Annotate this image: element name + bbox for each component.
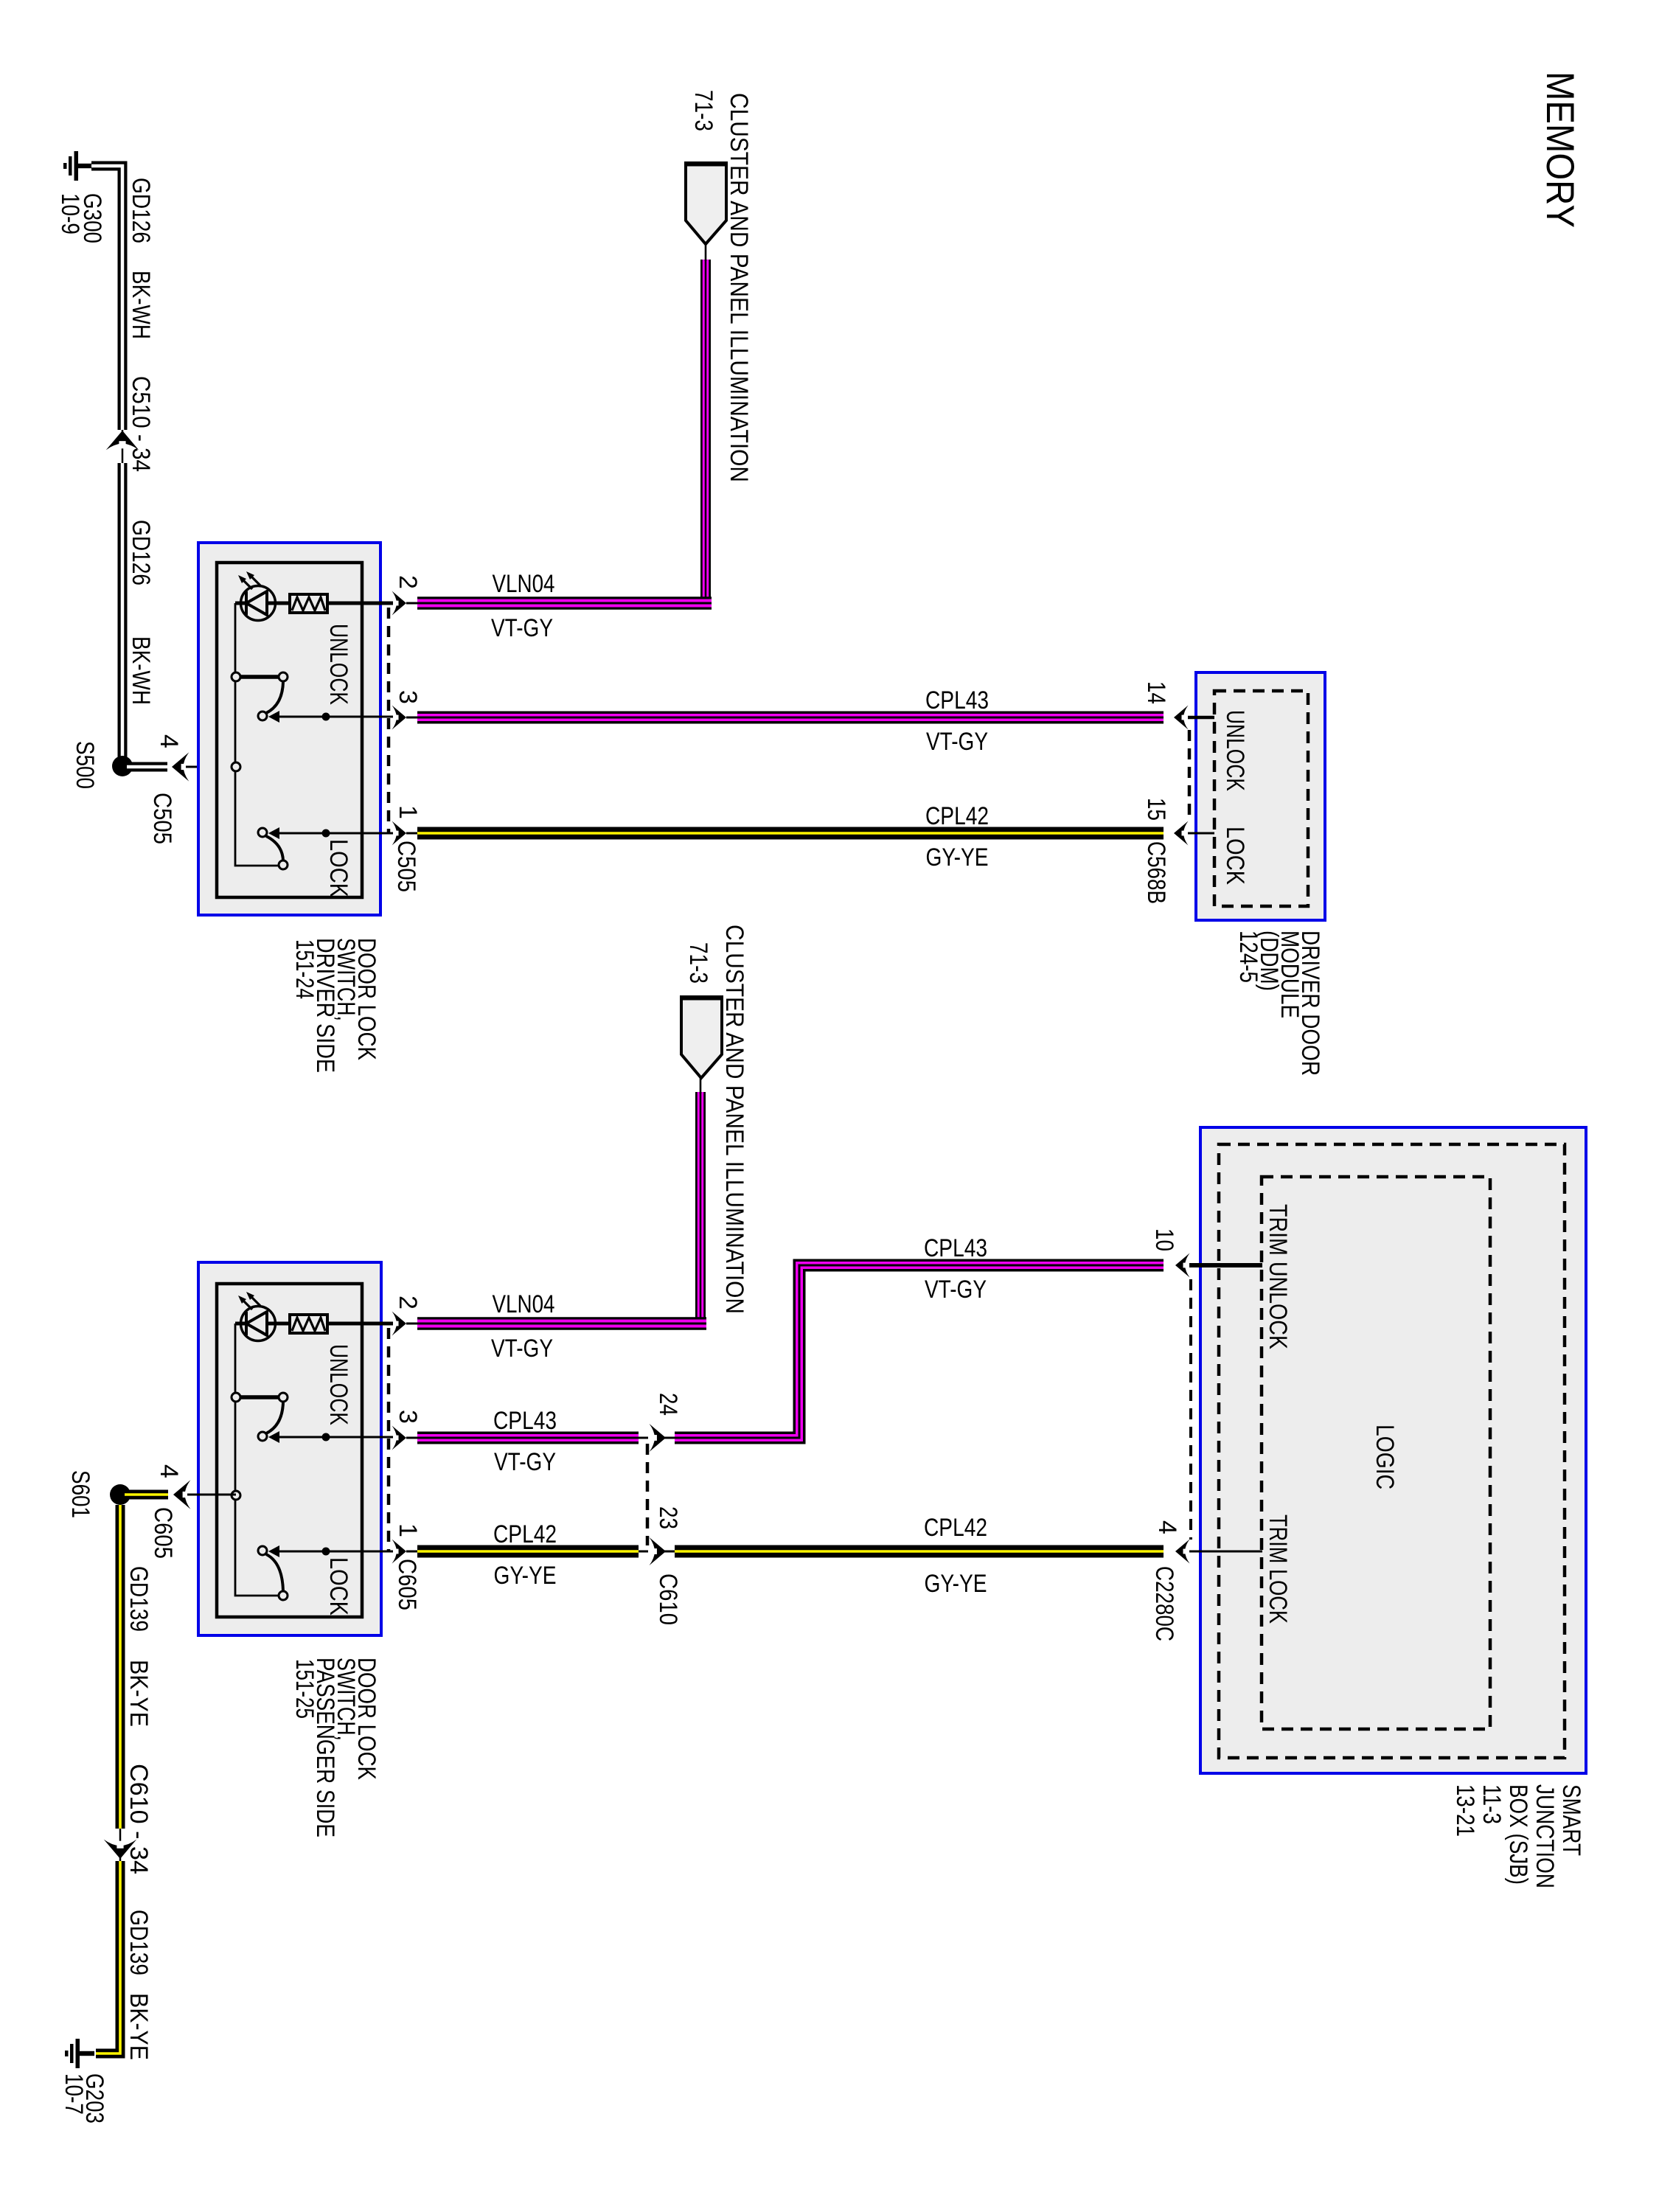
svg-text:CLUSTER AND PANEL ILLUMINATION: CLUSTER AND PANEL ILLUMINATION [725,93,753,482]
driver switch connector C505 dashed line [389,608,420,892]
passenger switch LED [238,1292,276,1341]
off-page connector CLUSTER AND PANEL ILLUMINATION (top) [684,90,753,482]
svg-text:14: 14 [1142,681,1170,704]
splice S601 [66,1470,131,1518]
svg-text:C605: C605 [393,1559,421,1610]
svg-text:BK-YE: BK-YE [125,1993,153,2060]
driver switch resistor [290,594,327,613]
svg-text:GD139: GD139 [125,1910,153,1975]
svg-text:GD139: GD139 [125,1566,153,1632]
passenger switch LOCK contact [258,1545,393,1615]
svg-text:UNLOCK: UNLOCK [1221,710,1249,791]
driver switch common node [232,762,240,771]
svg-text:LOCK: LOCK [324,839,352,897]
label DOOR LOCK SWITCH, PASSENGER SIDE 151-25 [291,1658,380,1837]
svg-text:C568B: C568B [1142,841,1170,904]
svg-text:3: 3 [394,1410,422,1424]
DDM pin 15 [1142,798,1214,904]
SJB connector dashed line [1189,1279,1192,1540]
svg-text:124-5: 124-5 [1234,931,1262,983]
wire CPL42 GY-YE (driver switch to DDM) [417,802,1164,872]
wire VLN04 VT-GY (passenger, to cluster illumination) [417,1092,706,1363]
inline connector C610 pin 24 [639,1393,682,1452]
svg-text:1: 1 [394,805,422,819]
off-page connector CLUSTER AND PANEL ILLUMINATION (bottom) [680,925,748,1314]
svg-text:VLN04: VLN04 [493,570,555,598]
SJB pin 10 [1150,1228,1262,1278]
svg-text:1: 1 [394,1523,422,1537]
svg-text:JUNCTION: JUNCTION [1531,1784,1559,1888]
svg-text:C610 - 34: C610 - 34 [125,1764,153,1874]
svg-text:TRIM LOCK: TRIM LOCK [1264,1514,1292,1624]
svg-text:4: 4 [155,1464,183,1478]
passenger switch pin 2 [392,1295,422,1336]
svg-text:GY-YE: GY-YE [494,1562,557,1590]
inline connector C610-34 [104,1764,153,1874]
svg-text:2: 2 [394,575,422,589]
svg-text:BK-WH: BK-WH [127,636,155,705]
svg-text:VT-GY: VT-GY [491,1335,553,1363]
driver door lock switch inner box [217,563,362,897]
svg-text:C2280C: C2280C [1150,1566,1178,1641]
svg-text:10: 10 [1150,1228,1178,1251]
label DRIVER DOOR MODULE (DDM) 124-5 [1234,931,1324,1076]
driver door module DDM box [1196,672,1325,920]
svg-text:UNLOCK: UNLOCK [324,624,352,705]
label DOOR LOCK SWITCH, DRIVER SIDE 151-24 [291,938,380,1073]
svg-text:23: 23 [654,1506,682,1529]
svg-text:3: 3 [394,690,422,704]
svg-text:BK-WH: BK-WH [127,271,155,339]
svg-text:VT-GY: VT-GY [925,1276,987,1304]
wire CPL43 VT-GY (passenger switch to C610) [417,1407,639,1476]
passenger switch left rail wire [235,1324,279,1596]
svg-text:C505: C505 [392,841,420,892]
driver switch pin 2 [392,575,422,616]
svg-text:C610: C610 [654,1573,682,1625]
wire CPL42 GY-YE (C610 to SJB) [675,1514,1164,1598]
wire GD139 BK-YE upper segment (S601 to C610) [120,1505,153,1829]
wire GD139 BK-YE lower segment (C610 to G203) [96,1861,153,2060]
driver door lock switch outer box [198,543,380,915]
svg-text:4: 4 [155,734,183,748]
svg-text:BOX (SJB): BOX (SJB) [1504,1784,1532,1885]
svg-text:VT-GY: VT-GY [491,614,553,642]
wire CPL42 GY-YE (passenger switch to C610) [417,1520,639,1590]
svg-text:4: 4 [1153,1520,1181,1534]
wire CPL43 VT-GY (driver switch to DDM) [417,686,1164,756]
driver switch left rail wire [235,603,279,866]
inline connector C610 dashed line [646,1444,650,1545]
passenger switch pin 1 [392,1523,422,1564]
svg-text:24: 24 [654,1393,682,1416]
svg-text:GD126: GD126 [127,178,155,243]
svg-text:CPL42: CPL42 [493,1520,557,1548]
wire stub S601 to C605 [125,1490,168,1500]
svg-text:GD126: GD126 [127,520,155,585]
passenger switch connector C605 dashed line [389,1328,421,1610]
svg-text:11-3: 11-3 [1478,1784,1506,1824]
driver switch pin 3 [392,690,422,730]
svg-text:GY-YE: GY-YE [926,844,989,872]
svg-text:CPL43: CPL43 [925,686,989,714]
svg-text:C510 - 34: C510 - 34 [127,376,155,472]
passenger door lock switch outer box [198,1262,381,1635]
DDM connector dashed line [1188,730,1192,820]
wire CPL43 VT-GY (C610 to SJB) [675,1234,1164,1438]
svg-text:LOCK: LOCK [324,1557,352,1615]
svg-text:15: 15 [1142,798,1170,821]
svg-text:BK-YE: BK-YE [125,1660,153,1727]
svg-text:10-7: 10-7 [60,2073,88,2115]
passenger switch common node [232,1491,240,1500]
svg-text:UNLOCK: UNLOCK [324,1344,352,1425]
svg-text:VLN04: VLN04 [493,1290,555,1318]
driver switch LOCK contact [258,827,393,897]
inline connector C510-34 [106,376,155,472]
label SMART JUNCTION BOX (SJB) 11-3 13-21 [1451,1784,1585,1888]
splice S500 [71,741,133,789]
smart junction box SJB [1200,1127,1586,1773]
svg-text:71-3: 71-3 [684,942,712,984]
wire stub S500 to C505 [127,762,167,772]
SJB pin 4 [1150,1520,1262,1641]
DDM pin 14 [1142,681,1214,730]
svg-text:C505: C505 [148,793,176,844]
svg-text:CPL43: CPL43 [493,1407,557,1435]
wire GD126 BK-WH lower segment (C510 to S500) [122,463,155,759]
svg-text:151-25: 151-25 [291,1659,319,1719]
svg-text:CLUSTER AND PANEL ILLUMINATION: CLUSTER AND PANEL ILLUMINATION [720,925,748,1314]
svg-text:CPL42: CPL42 [924,1514,987,1542]
inline connector C610 pin 23 [639,1506,682,1625]
svg-text:CPL42: CPL42 [925,802,989,830]
wire VLN04 VT-GY (driver, to cluster illumination) [417,260,712,642]
svg-text:10-9: 10-9 [56,193,84,234]
ground G203 [60,2039,108,2124]
connector C605 pin 4 (splice side) [149,1464,236,1559]
svg-text:S601: S601 [66,1470,94,1518]
passenger switch pin 3 [392,1410,422,1450]
svg-text:CPL43: CPL43 [924,1234,987,1262]
svg-text:2: 2 [394,1295,422,1310]
driver switch UNLOCK contact [232,624,393,723]
svg-text:LOCK: LOCK [1221,827,1249,885]
svg-text:C605: C605 [149,1507,177,1559]
svg-text:LOGIC: LOGIC [1371,1425,1399,1489]
ground G300 [56,151,106,243]
passenger switch resistor [290,1315,327,1333]
passenger door lock switch inner box [217,1284,362,1617]
svg-text:TRIM UNLOCK: TRIM UNLOCK [1264,1204,1292,1349]
svg-text:SMART: SMART [1557,1784,1585,1856]
passenger switch pin2 internal wire [235,1322,393,1326]
svg-text:S500: S500 [71,741,99,789]
wire GD126 BK-WH upper segment (G300 to C510) [91,166,155,430]
svg-text:151-24: 151-24 [291,939,319,999]
driver switch LED [238,571,276,621]
svg-text:13-21: 13-21 [1451,1784,1479,1837]
svg-text:GY-YE: GY-YE [925,1570,987,1598]
driver switch pin2 internal wire [235,602,393,605]
svg-text:MEMORY: MEMORY [1538,72,1582,228]
driver switch pin 1 [392,805,422,846]
svg-text:VT-GY: VT-GY [926,728,988,756]
passenger switch UNLOCK contact [232,1344,393,1443]
connector C505 pin 4 (splice side) [148,734,236,844]
svg-text:VT-GY: VT-GY [494,1448,556,1476]
svg-text:71-3: 71-3 [689,90,717,131]
